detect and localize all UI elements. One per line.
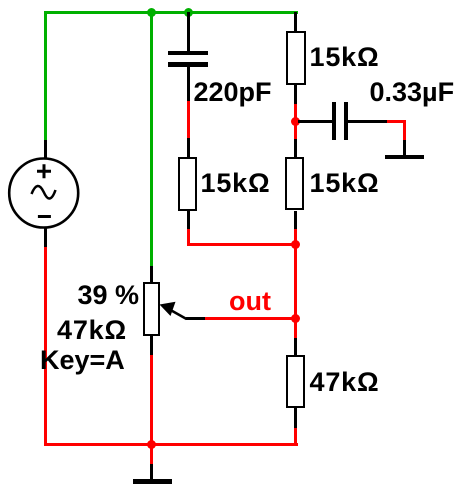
label 39 % [78,282,140,309]
wire black wiper horizontal [186,317,205,320]
wire black resistor R3 bottom lead [294,211,297,229]
wire black potentiometer top lead [150,266,153,283]
node junction green dot B [184,8,193,17]
wire red bottom horizontal [44,443,298,446]
wire red to right ground [387,120,406,123]
wire red bottom ground link [150,446,153,464]
wire black resistor R5 bottom lead [294,408,297,429]
capacitor C2 left plate [332,102,336,140]
wire red left vertical [44,247,47,447]
value label R5 47k [310,369,380,396]
node junction red dot bottom [147,440,156,449]
node junction red dot C [291,117,300,126]
wire black resistor R5 top lead [294,338,297,356]
wire black resistor R1 bottom lead [294,84,297,104]
wire red out horizontal [205,317,298,320]
wire black source top lead [44,140,47,159]
value label R2 15k [201,170,271,197]
resistor R3 body [285,157,304,211]
ground bottom [133,479,172,484]
node junction red dot out [291,314,300,323]
wire black resistor R2 top lead [187,138,190,157]
wire black capacitor C2 right lead [348,120,387,123]
wire red mid horizontal [187,243,298,246]
AC source V1 [0,150,92,240]
wire black source bottom lead [44,228,47,247]
wire red R1 to node C [294,104,297,140]
value label 220pF [194,79,272,106]
resistor R2 body [178,157,197,211]
wire black resistor R1 top lead [294,12,297,32]
wire black resistor R3 top lead [294,139,297,157]
node junction green dot A [147,8,156,17]
value label 0.33uF [370,79,455,106]
wire top horizontal green net [44,11,298,14]
capacitor C2 right plate [344,102,348,140]
resistor R1 body [286,31,306,85]
wire red out node to R5 [294,320,297,338]
value label 47k pot [57,317,127,344]
wire red R2 to mid node [187,229,190,247]
wire red node D to node out [294,246,297,317]
wire red R3 to node D [294,229,297,244]
value label R1 15k [310,44,380,71]
capacitor C1 bottom plate [168,62,208,67]
wire black capacitor C2 left lead [298,120,332,123]
resistor R5 body [286,355,305,408]
potentiometer R4 body [143,282,160,336]
wire black right ground stem [403,140,406,156]
wire red middle branch [187,101,190,139]
wire black resistor R2 bottom lead [187,211,190,229]
wire green vertical to potentiometer [150,11,153,266]
wire black capacitor C1 bottom lead [187,67,190,101]
wire red right ground vertical [403,120,406,140]
label Key=A [40,347,125,374]
capacitor C1 top plate [168,51,208,56]
wire left vertical green to source [44,11,47,140]
potentiometer wiper arrow [155,295,210,325]
net label out [229,288,271,315]
wire black bottom ground stem [150,464,153,479]
value label R3 15k [310,170,380,197]
ground right [385,155,424,160]
wire black capacitor C1 top lead [187,12,190,51]
node junction red dot D [291,240,300,249]
wire red potentiometer to bottom net [150,355,153,443]
wire red R5 to bottom net [294,428,297,443]
wire black potentiometer bottom lead [150,336,153,356]
